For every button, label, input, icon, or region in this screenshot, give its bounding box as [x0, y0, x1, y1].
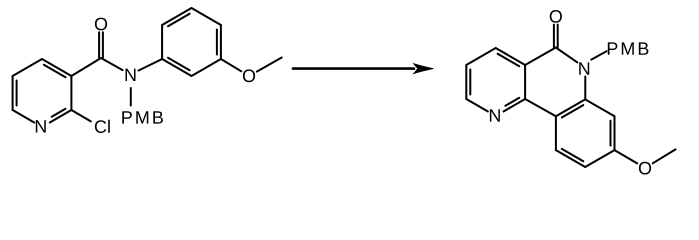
wire C5-N6 bond [556, 48, 578, 63]
wire O-CH3 bond right [653, 149, 676, 163]
wire benzene C9=C10 double edge [556, 150, 585, 167]
wire C5=O double bond right [553, 25, 555, 48]
wire N6-PMB bond right [591, 51, 606, 59]
wire r-pyridine C2-N1 edge [466, 99, 488, 112]
wire C10a-C10b bond [525, 99, 556, 116]
wire N6-C6a bond [584, 77, 586, 100]
wire phenyl-O bond left OMe [221, 59, 241, 71]
node N1 right [490, 109, 500, 121]
node N6 right [579, 62, 589, 74]
wire r-pyridine C3=C2 double edge [465, 65, 467, 99]
wire phenyl C6=C5 double edge [162, 59, 191, 76]
wire pyridine C2-C3 edge [70, 76, 72, 110]
node O carbonyl right [550, 10, 562, 23]
wire phenyl C2=C1 double edge [162, 8, 191, 25]
wire phenyl C5-C4 edge [192, 59, 221, 76]
wire N-phenyl ipso bond [139, 59, 163, 71]
wire pyridine C3=C4 double edge [42, 59, 71, 76]
node Cl [95, 120, 110, 133]
node O carbonyl left [95, 18, 107, 31]
node N amide [126, 69, 136, 81]
node O methoxy right [639, 162, 651, 175]
wire pyridine N1=C2 double edge [50, 110, 72, 123]
wire pyridine C5=C6 double edge [12, 76, 14, 110]
wire phenyl C1-C6 edge [161, 25, 163, 59]
wire benzene C10a=C6a fusion double edge [556, 99, 585, 116]
node N pyridine left [36, 120, 46, 132]
wire N-PMB bond left [130, 88, 132, 106]
node O methoxy left [243, 69, 255, 82]
node PMB left [122, 111, 163, 123]
node PMB right [608, 42, 649, 54]
wire r-pyridine C10b-C4a shared edge [524, 65, 526, 99]
wire C2-Cl bond [71, 110, 90, 121]
wire phenyl C3-C2 edge [192, 8, 221, 25]
wire benzene C10-C10a edge [555, 116, 557, 150]
reaction arrow [293, 67, 414, 70]
wire r-pyridine C4-C3 edge [466, 48, 495, 65]
wire C3-carbonyl bond [71, 58, 101, 76]
wire carbonyl-N amide bond [101, 58, 123, 70]
wire C8-O bond right OMe [615, 150, 638, 163]
wire C=O double bond left [98, 32, 100, 58]
wire benzene C7=C8 double edge [614, 116, 616, 150]
wire r-pyridine C4a=C4 double edge [496, 48, 525, 65]
wire C4a-C5 bond [525, 48, 556, 66]
wire pyridine C4-C5 edge [13, 59, 42, 76]
wire O-CH3 bond left [257, 58, 282, 72]
wire phenyl C4=C3 double edge [220, 25, 222, 59]
wire pyridine C6-N1 edge [13, 110, 35, 123]
wire benzene C8-C9 edge [585, 150, 614, 167]
wire benzene C6a-C7 edge [585, 99, 614, 116]
wire r-pyridine N1=C10b double edge [504, 99, 526, 112]
